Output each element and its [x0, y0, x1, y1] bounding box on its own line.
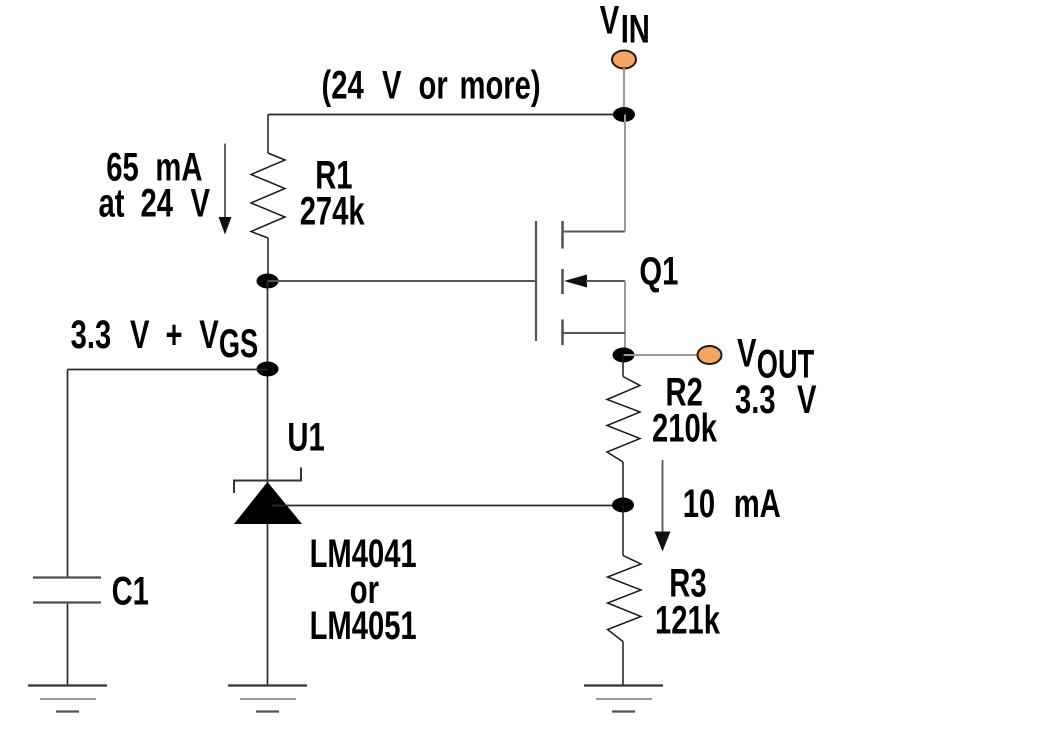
wire U1 feedback to divider junction [272, 505, 623, 507]
label 3.3 V + VGS [71, 313, 259, 367]
wire top horizontal VIN bus [268, 114, 624, 116]
svg-text:3.3: 3.3 [71, 313, 112, 358]
wire R2 bottom lead [622, 462, 624, 505]
svg-text:V: V [199, 313, 219, 358]
wire Q1 source up to VIN node [624, 115, 626, 232]
C1 bottom plate [33, 601, 101, 603]
svg-text:210k: 210k [652, 406, 717, 451]
wire U1 anode down to ground [267, 524, 269, 685]
svg-text:24: 24 [141, 181, 174, 226]
label VIN [600, 0, 650, 51]
wire VOUT node to output terminal [624, 354, 700, 356]
svg-text:V: V [191, 181, 211, 226]
label R1 value 274k [300, 153, 365, 234]
resistor R1 zigzag body [251, 153, 285, 238]
junction dot VIN node [613, 107, 635, 122]
svg-text:10: 10 [683, 482, 715, 527]
resistor R2 [607, 355, 640, 505]
wire R1 bottom lead [267, 238, 269, 281]
svg-text:(24: (24 [322, 63, 365, 108]
svg-text:V: V [737, 331, 757, 376]
arrow 65 mA current direction [219, 144, 232, 235]
svg-text:or: or [419, 63, 449, 108]
svg-text:GS: GS [219, 322, 258, 366]
arrow 10 mA current direction [655, 460, 671, 552]
svg-text:LM4051: LM4051 [310, 604, 417, 649]
svg-text:C1: C1 [112, 569, 149, 614]
svg-text:274k: 274k [300, 189, 365, 234]
svg-text:V: V [797, 378, 817, 423]
junction dot VOUT node [613, 348, 635, 363]
C1 top plate [33, 576, 101, 578]
svg-text:+: + [166, 313, 183, 358]
junction dot gate node [257, 274, 279, 289]
wire Q1 drain lead horizontal [563, 332, 626, 334]
resistor R3 zigzag body [608, 556, 642, 642]
node VOUT output terminal [698, 346, 722, 364]
svg-text:V: V [130, 313, 150, 358]
U1 anode triangle [234, 482, 302, 524]
svg-text:more): more) [460, 63, 541, 108]
wire R3 top lead [622, 505, 624, 556]
U1 cathode bar with bent ends [234, 468, 301, 494]
wire R3 bottom lead to ground [622, 642, 624, 686]
ground at C1 [28, 686, 107, 712]
wire gate node to Q1 gate [268, 280, 536, 282]
label 65 mA at 24 V [99, 145, 211, 226]
capacitor C1 [33, 578, 101, 686]
Q1 gate bar [535, 221, 537, 341]
resistor R1 [251, 115, 285, 282]
wire Q1 drain down to output node [624, 281, 626, 355]
Q1 body arrow pointing to channel [564, 275, 587, 288]
resistor R2 zigzag body [607, 377, 640, 463]
svg-text:Q1: Q1 [639, 249, 678, 294]
wire R1 top lead [267, 115, 269, 154]
svg-text:V: V [600, 0, 620, 43]
label 10 mA [683, 482, 781, 527]
Q1 channel segment bottom [561, 320, 564, 346]
label R2 value 210k [652, 370, 717, 450]
Q1 channel segment top [561, 221, 564, 249]
svg-text:V: V [382, 63, 402, 108]
wire left vertical down to C1 [67, 370, 69, 577]
svg-text:121k: 121k [655, 598, 720, 643]
Q1 channel segment middle [561, 269, 564, 294]
svg-text:at: at [99, 181, 125, 226]
wire Q1 body lead horizontal [586, 280, 625, 282]
wire VIN terminal down to junction [623, 68, 625, 115]
label VOUT 3.3 V [735, 331, 817, 422]
wire Q1 source lead horizontal [563, 231, 626, 233]
label R3 value 121k [655, 561, 720, 643]
wire gate node down to U1 cathode [267, 281, 269, 483]
label LM4041 or LM4051 [310, 531, 417, 648]
node VIN input terminal [612, 51, 636, 69]
svg-text:IN: IN [621, 7, 650, 52]
shunt reference U1 LM4041 [234, 468, 302, 686]
wire C1 bottom lead to ground [67, 604, 69, 686]
wire R2 top lead [622, 355, 624, 377]
svg-text:3.3: 3.3 [735, 378, 776, 423]
ground at U1 [228, 686, 307, 712]
label (24 V or more) [322, 63, 541, 108]
ground at R3 [584, 686, 663, 712]
junction dot VGS node [257, 362, 279, 377]
junction dot divider node [612, 498, 634, 513]
svg-text:mA: mA [734, 482, 781, 527]
svg-text:U1: U1 [287, 415, 324, 460]
resistor R3 [608, 505, 642, 685]
wire VGS node to left [68, 369, 268, 371]
transistor Q1 p-channel MOSFET [536, 115, 625, 356]
